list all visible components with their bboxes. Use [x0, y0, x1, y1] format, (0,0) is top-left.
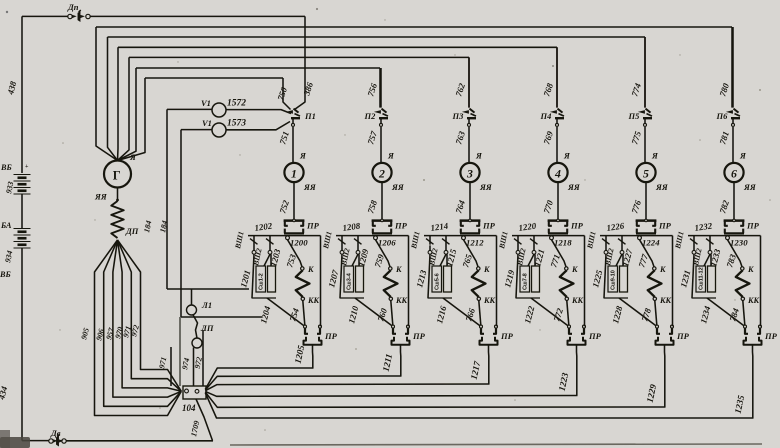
contact ВШ2 branch 1 [266, 239, 274, 245]
svg-text:Я: Я [387, 151, 395, 161]
wire 1205 bottom drop [312, 345, 314, 368]
wire generator bus to П6 left riser [96, 27, 118, 161]
wire 1572 lower horizontal [167, 288, 249, 290]
lamp ЛП [192, 338, 202, 348]
svg-text:ПР: ПР [412, 331, 426, 341]
resistor 1215 box [444, 266, 452, 292]
svg-text:3: 3 [466, 166, 473, 180]
wire 1226 junction bar [600, 235, 673, 237]
contact ПР branch 6 bottom [744, 325, 747, 328]
svg-text:ПР: ПР [746, 221, 760, 231]
svg-text:ЯЯ: ЯЯ [303, 182, 317, 192]
contact П3 [464, 111, 469, 114]
wire 1222 diagonal [531, 298, 568, 326]
contact ПР branch 4 [548, 219, 569, 222]
wire 771 to contact К [552, 240, 567, 267]
contact ПР branch 4 bottom [568, 325, 571, 328]
wire ВШ2 to shunt box [704, 254, 710, 266]
node К branch 1 [301, 267, 304, 270]
svg-text:П6: П6 [716, 111, 729, 121]
svg-text:КК: КК [483, 296, 496, 305]
wire 774 drop to П5 [644, 37, 646, 108]
wire 1223 bottom drop [576, 345, 578, 396]
node КК branch 4 [565, 297, 568, 300]
node К branch 5 [653, 267, 656, 270]
wire bottom rail from 434 to switch Дв [22, 440, 49, 442]
wire 759 to contact К [376, 240, 391, 267]
contact ПР branch 2 bottom [392, 325, 395, 328]
wire generator bus to П2 right drop [379, 68, 381, 108]
shunt Сш9-10 [608, 266, 618, 292]
wire 1235 bottom drop [752, 345, 754, 418]
svg-text:ПР: ПР [394, 221, 408, 231]
shunt Сш1-2 [256, 266, 266, 292]
wire 780 drop to П6 [732, 27, 734, 108]
contact ПР branch 1 bottom [304, 325, 307, 328]
node КК branch 1 [301, 297, 304, 300]
svg-text:ПР: ПР [658, 221, 672, 231]
wire 1216 diagonal [443, 298, 480, 326]
contact ВШ1 branch 6 [690, 239, 698, 245]
wire bypass rail branch 3 [496, 236, 498, 327]
svg-text:1224: 1224 [642, 238, 660, 248]
contact ПР branch 1 [284, 219, 305, 222]
svg-text:ПР: ПР [482, 221, 496, 231]
wire 1572 horizontal [167, 108, 212, 110]
wire 1211 bottom drop [400, 345, 402, 376]
wire 1201 left leg [252, 254, 254, 298]
wire 1208 junction bar [336, 235, 409, 237]
wire bottom connector of boxes [604, 297, 629, 299]
wire generator bus to П1 (wire 750) left riser [118, 78, 146, 161]
wire generator bus to П5 left riser [108, 37, 118, 161]
resistor К-КК branch 1 [296, 270, 310, 297]
traction motor 4 armature [548, 163, 567, 182]
svg-text:П3: П3 [452, 111, 465, 121]
wire 758 (motor to ПР) [381, 182, 383, 220]
wire 776 (motor to ПР) [645, 182, 647, 220]
shunt Сш5-6 [432, 266, 442, 292]
wire 766 below КК [479, 301, 481, 325]
voltmeter V1 upper [212, 103, 226, 117]
wire generator bus to П4 left riser [117, 47, 120, 160]
wire 760 below КК [391, 301, 393, 325]
wire 1202 junction bar [248, 235, 321, 237]
wire 1217 bottom drop [488, 345, 490, 384]
svg-text:КК: КК [659, 296, 672, 305]
wire 957 from ДП to panel 104 [113, 240, 181, 397]
svg-text:Сш9-10: Сш9-10 [611, 270, 617, 290]
wire 1213 left leg [428, 254, 430, 298]
wire 1214 junction bar [424, 235, 497, 237]
svg-text:ПР: ПР [764, 331, 778, 341]
svg-text:ПР: ПР [676, 331, 690, 341]
svg-text:Дп: Дп [67, 2, 79, 12]
node К branch 6 [741, 267, 744, 270]
svg-text:ПР: ПР [324, 331, 338, 341]
node 1200 junction [286, 236, 290, 240]
svg-text:ВБ: ВБ [0, 163, 12, 172]
wire 752 (motor to ПР) [293, 182, 295, 220]
contact ВШ1 branch 4 [514, 239, 522, 245]
wire 1232 junction bar [688, 235, 761, 237]
node 1224 junction [638, 236, 642, 240]
svg-text:К: К [571, 265, 578, 274]
resistor 1221 box [532, 266, 540, 292]
contact ВШ1 branch 5 [602, 239, 610, 245]
traction motor 1 armature [284, 163, 303, 182]
wire 1573 to П1 [226, 122, 290, 130]
wire Л1 to ЛП [193, 315, 198, 338]
wire 1217 bus to panel 104 [205, 384, 489, 391]
wire generator bus to П4 right drop [556, 47, 558, 107]
contact ВШ2 branch 6 [706, 239, 714, 245]
contact ПР branch 3 bottom [480, 325, 483, 328]
svg-text:1: 1 [291, 166, 297, 180]
wire generator bus to П2 horizontal [136, 67, 380, 69]
svg-text:Я: Я [651, 151, 659, 161]
svg-text:Г: Г [113, 169, 121, 183]
wire bottom connector of boxes [340, 297, 365, 299]
contact П1 [288, 111, 293, 114]
resistor 1233 box [708, 266, 716, 292]
wire 1229 bus to panel 104 [205, 392, 665, 407]
svg-text:ЯЯ: ЯЯ [655, 182, 669, 192]
wire bypass rail branch 6 [760, 236, 762, 327]
node К branch 2 [389, 267, 392, 270]
switch Дп [68, 14, 72, 18]
shunt Сш3-4 [344, 266, 354, 292]
battery 933 (ВБ-БА) [14, 174, 31, 176]
svg-text:4: 4 [554, 166, 561, 180]
wire 438 left rail upper [21, 16, 23, 173]
wire 756 drop to П2 [380, 68, 382, 108]
svg-text:Сш3-4: Сш3-4 [347, 272, 353, 290]
svg-text:КК: КК [307, 296, 320, 305]
wire 1204 diagonal [267, 298, 304, 326]
svg-text:6: 6 [731, 166, 737, 180]
svg-text:П5: П5 [628, 111, 641, 121]
wire 781 (П6 to motor) [732, 127, 734, 163]
terminal panel 104 [183, 386, 206, 399]
svg-text:ПР: ПР [588, 331, 602, 341]
svg-text:ПР: ПР [306, 221, 320, 231]
svg-text:ДП: ДП [125, 226, 139, 236]
resistor 1227 box [620, 266, 628, 292]
svg-text:ЯЯ: ЯЯ [743, 182, 757, 192]
svg-text:2: 2 [378, 166, 385, 180]
contact П4 [552, 111, 557, 114]
wire 754 below КК [303, 301, 305, 325]
svg-text:К: К [659, 265, 666, 274]
wire 750 drop to П1 [283, 78, 291, 110]
traction motor 2 armature [372, 163, 391, 182]
wire 777 to contact К [640, 240, 655, 267]
wire 972 to panel 104 [202, 330, 204, 386]
svg-text:П1: П1 [304, 111, 316, 121]
wire ВШ2 to shunt box [616, 254, 622, 266]
wire ВШ2 to shunt box [528, 254, 534, 266]
svg-text:ПР: ПР [500, 331, 514, 341]
wire 386 horizontal (Дп to branch 1) [90, 15, 305, 17]
contact ВШ2 branch 4 [530, 239, 538, 245]
svg-text:К: К [395, 265, 402, 274]
wire 1225 left leg [604, 254, 606, 298]
svg-text:КК: КК [395, 296, 408, 305]
wire 1211 bus to panel 104 [205, 376, 401, 390]
svg-text:1573: 1573 [227, 119, 246, 129]
contact ВШ1 branch 2 [338, 239, 346, 245]
node 1218 junction [550, 236, 554, 240]
contact ПР branch 5 bottom [656, 325, 659, 328]
svg-text:1572: 1572 [227, 99, 246, 109]
wire generator bus to П2 left riser [118, 68, 137, 161]
svg-text:Сш7-8: Сш7-8 [523, 273, 529, 290]
resistor 1203 box [268, 266, 276, 292]
svg-text:ПР: ПР [570, 221, 584, 231]
junction dot [116, 199, 119, 202]
contact ПР branch 5 [636, 219, 657, 222]
svg-text:Я: Я [563, 151, 571, 161]
resistor К-КК branch 3 [472, 270, 486, 297]
node КК branch 3 [477, 297, 480, 300]
wire 1219 left leg [516, 254, 518, 298]
wire 971 to panel 104 [170, 347, 172, 386]
wire ВШ2 to shunt box [440, 254, 446, 266]
svg-text:V1: V1 [201, 98, 211, 108]
traction motor 3 armature [460, 163, 479, 182]
contact ПР branch 2 [372, 219, 393, 222]
wire top from rail to switch Дп [22, 15, 68, 17]
wire 1229 bottom drop [664, 345, 666, 407]
contact ВШ2 branch 2 [354, 239, 362, 245]
wire 1573 horizontal [181, 129, 212, 131]
wire between batteries [21, 194, 23, 229]
svg-text:Я: Я [129, 152, 137, 162]
traction motor 5 armature [636, 163, 655, 182]
svg-text:1218: 1218 [554, 238, 572, 248]
wire bypass rail branch 4 [584, 236, 586, 327]
wire 1210 diagonal [355, 298, 392, 326]
node КК branch 5 [653, 297, 656, 300]
wire 757 (П2 to motor) [380, 127, 382, 163]
svg-text:ВБ: ВБ [0, 270, 11, 279]
svg-text:К: К [307, 265, 314, 274]
wire generator bus to П3 left riser [118, 57, 130, 160]
svg-text:ЯЯ: ЯЯ [94, 192, 108, 202]
node К branch 4 [565, 267, 568, 270]
wire 974 lamp to panel 104 [193, 348, 195, 387]
wire 972 from ДП to panel 104 [118, 240, 182, 391]
node 1206 junction [374, 236, 378, 240]
wire 970 from ДП to panel 104 [118, 240, 182, 391]
wire 1231 left leg [692, 254, 694, 298]
svg-text:Сш11-12: Сш11-12 [699, 267, 705, 290]
voltmeter V1 lower [212, 123, 226, 137]
wire 961 from ДП to panel 104 [118, 240, 182, 391]
contact ВШ2 branch 5 [618, 239, 626, 245]
contact ПР branch 6 [724, 219, 745, 222]
resistor К-КК branch 5 [648, 270, 662, 297]
wire generator bus to П6 horizontal [96, 26, 732, 28]
wire to lamp Л1 [191, 289, 193, 305]
svg-text:П4: П4 [540, 111, 552, 121]
wire generator bus to П3 horizontal [129, 56, 469, 58]
svg-text:1206: 1206 [378, 238, 396, 248]
contact П2 [376, 111, 381, 114]
wire 1223 bus to panel 104 [205, 391, 577, 396]
shunt Сш11-12 [696, 266, 706, 292]
node 1212 junction [462, 236, 466, 240]
wire 763 (П3 to motor) [468, 127, 470, 163]
wire bottom connector of boxes [516, 297, 541, 299]
wire 1228 diagonal [619, 298, 656, 326]
wire 762 drop to П3 [468, 57, 470, 107]
resistor 1209 box [356, 266, 364, 292]
contact П6 [728, 111, 733, 114]
traction motor 6 armature [724, 163, 743, 182]
wire bypass rail branch 5 [672, 236, 674, 327]
wire bottom rail to 1709 junction [66, 440, 213, 442]
wire 783 to contact К [728, 240, 743, 267]
wire generator bus to П4 horizontal [118, 46, 557, 48]
wire 1234 diagonal [707, 298, 744, 326]
wire generator bus to П6 right drop [731, 27, 733, 108]
svg-text:Я: Я [299, 151, 307, 161]
svg-text:1212: 1212 [466, 238, 484, 248]
svg-text:Я: Я [739, 151, 747, 161]
svg-text:104: 104 [182, 403, 196, 413]
wire bypass rail branch 1 [320, 236, 322, 327]
svg-text:ЯЯ: ЯЯ [479, 182, 493, 192]
svg-text:ЛП: ЛП [200, 323, 214, 333]
wire 769 (П4 to motor) [556, 127, 558, 163]
svg-text:Л1: Л1 [201, 300, 212, 310]
wire 1573 lower horizontal [181, 316, 262, 318]
switch Дв [49, 439, 53, 443]
wire generator to ДП winding [117, 188, 119, 200]
wire 1709 panel to bottom rail [196, 399, 213, 441]
battery 934 (БА-ВБ) [14, 228, 31, 230]
wire 1205 bus to panel 104 [205, 368, 313, 389]
wire 1572 left riser [166, 109, 168, 289]
wire 782 (motor to ПР) [733, 182, 735, 220]
wire 434 left rail lower [21, 248, 23, 441]
wire 770 (motor to ПР) [557, 182, 559, 220]
svg-text:П2: П2 [364, 111, 377, 121]
generator G armature [104, 161, 131, 188]
node КК branch 2 [389, 297, 392, 300]
contact ВШ2 branch 3 [442, 239, 450, 245]
wire bottom connector of boxes [428, 297, 453, 299]
wire bottom connector of boxes [692, 297, 717, 299]
wire 765 to contact К [464, 240, 479, 267]
wire generator bus to П5 right drop [644, 37, 646, 108]
wire 1207 left leg [340, 254, 342, 298]
svg-text:КК: КК [571, 296, 584, 305]
wire 778 below КК [655, 301, 657, 325]
svg-text:ЯЯ: ЯЯ [567, 182, 581, 192]
svg-text:5: 5 [643, 166, 649, 180]
wire 768 drop to П4 [556, 47, 558, 107]
wire 1573 left riser [180, 130, 182, 317]
wire ВШ2 to shunt box [352, 254, 358, 266]
node КК branch 6 [741, 297, 744, 300]
winding ДП (resistor zigzag) [111, 201, 123, 238]
wire bottom connector of boxes [252, 297, 277, 299]
contact ВШ1 branch 3 [426, 239, 434, 245]
node 1230 junction [726, 236, 730, 240]
resistor К-КК branch 4 [560, 270, 574, 297]
svg-text:КК: КК [747, 296, 760, 305]
wire generator bus to П3 right drop [468, 57, 470, 107]
wire ВШ2 to shunt box [264, 254, 270, 266]
svg-text:1230: 1230 [730, 238, 748, 248]
resistor К-КК branch 2 [384, 270, 398, 297]
wire 1235 bus to panel 104 [205, 393, 753, 418]
svg-text:БА: БА [0, 221, 12, 230]
contact ПР branch 3 [460, 219, 481, 222]
wire 906 from ДП to panel 104 [104, 240, 182, 406]
svg-text:ЯЯ: ЯЯ [391, 182, 405, 192]
scan smudge bottom border [230, 444, 762, 445]
svg-text:Сш1-2: Сш1-2 [259, 273, 265, 290]
svg-text:1200: 1200 [290, 238, 308, 248]
resistor К-КК branch 6 [736, 270, 750, 297]
wire 751 (П1 to motor) [292, 127, 294, 163]
wire generator bus to П1 (wire 750) horizontal [145, 77, 283, 79]
lamp Л1 [187, 305, 197, 315]
svg-text:Я: Я [475, 151, 483, 161]
wire 1572 to П1 [226, 110, 291, 114]
contact П5 [640, 111, 645, 114]
wire 775 (П5 to motor) [644, 127, 646, 163]
svg-text:Сш5-6: Сш5-6 [435, 273, 441, 290]
wire 772 below КК [567, 301, 569, 325]
node К branch 3 [477, 267, 480, 270]
svg-text:К: К [483, 265, 490, 274]
wire bypass rail branch 2 [408, 236, 410, 327]
shunt Сш7-8 [520, 266, 530, 292]
svg-text:К: К [747, 265, 754, 274]
contact ВШ1 branch 1 [250, 239, 258, 245]
wire 784 below КК [743, 301, 745, 325]
wire 1220 junction bar [512, 235, 585, 237]
wire 386 vertical drop [295, 16, 306, 109]
svg-text:Дв: Дв [50, 428, 61, 438]
svg-text:V1: V1 [202, 118, 212, 128]
wire riser pair to lamps [179, 317, 181, 386]
wire generator bus to П5 horizontal [108, 36, 646, 38]
wire 905 from ДП to panel 104 [95, 240, 182, 416]
wire 764 (motor to ПР) [469, 182, 471, 220]
svg-text:+: + [25, 164, 29, 170]
wire 753 to contact К [288, 240, 303, 267]
